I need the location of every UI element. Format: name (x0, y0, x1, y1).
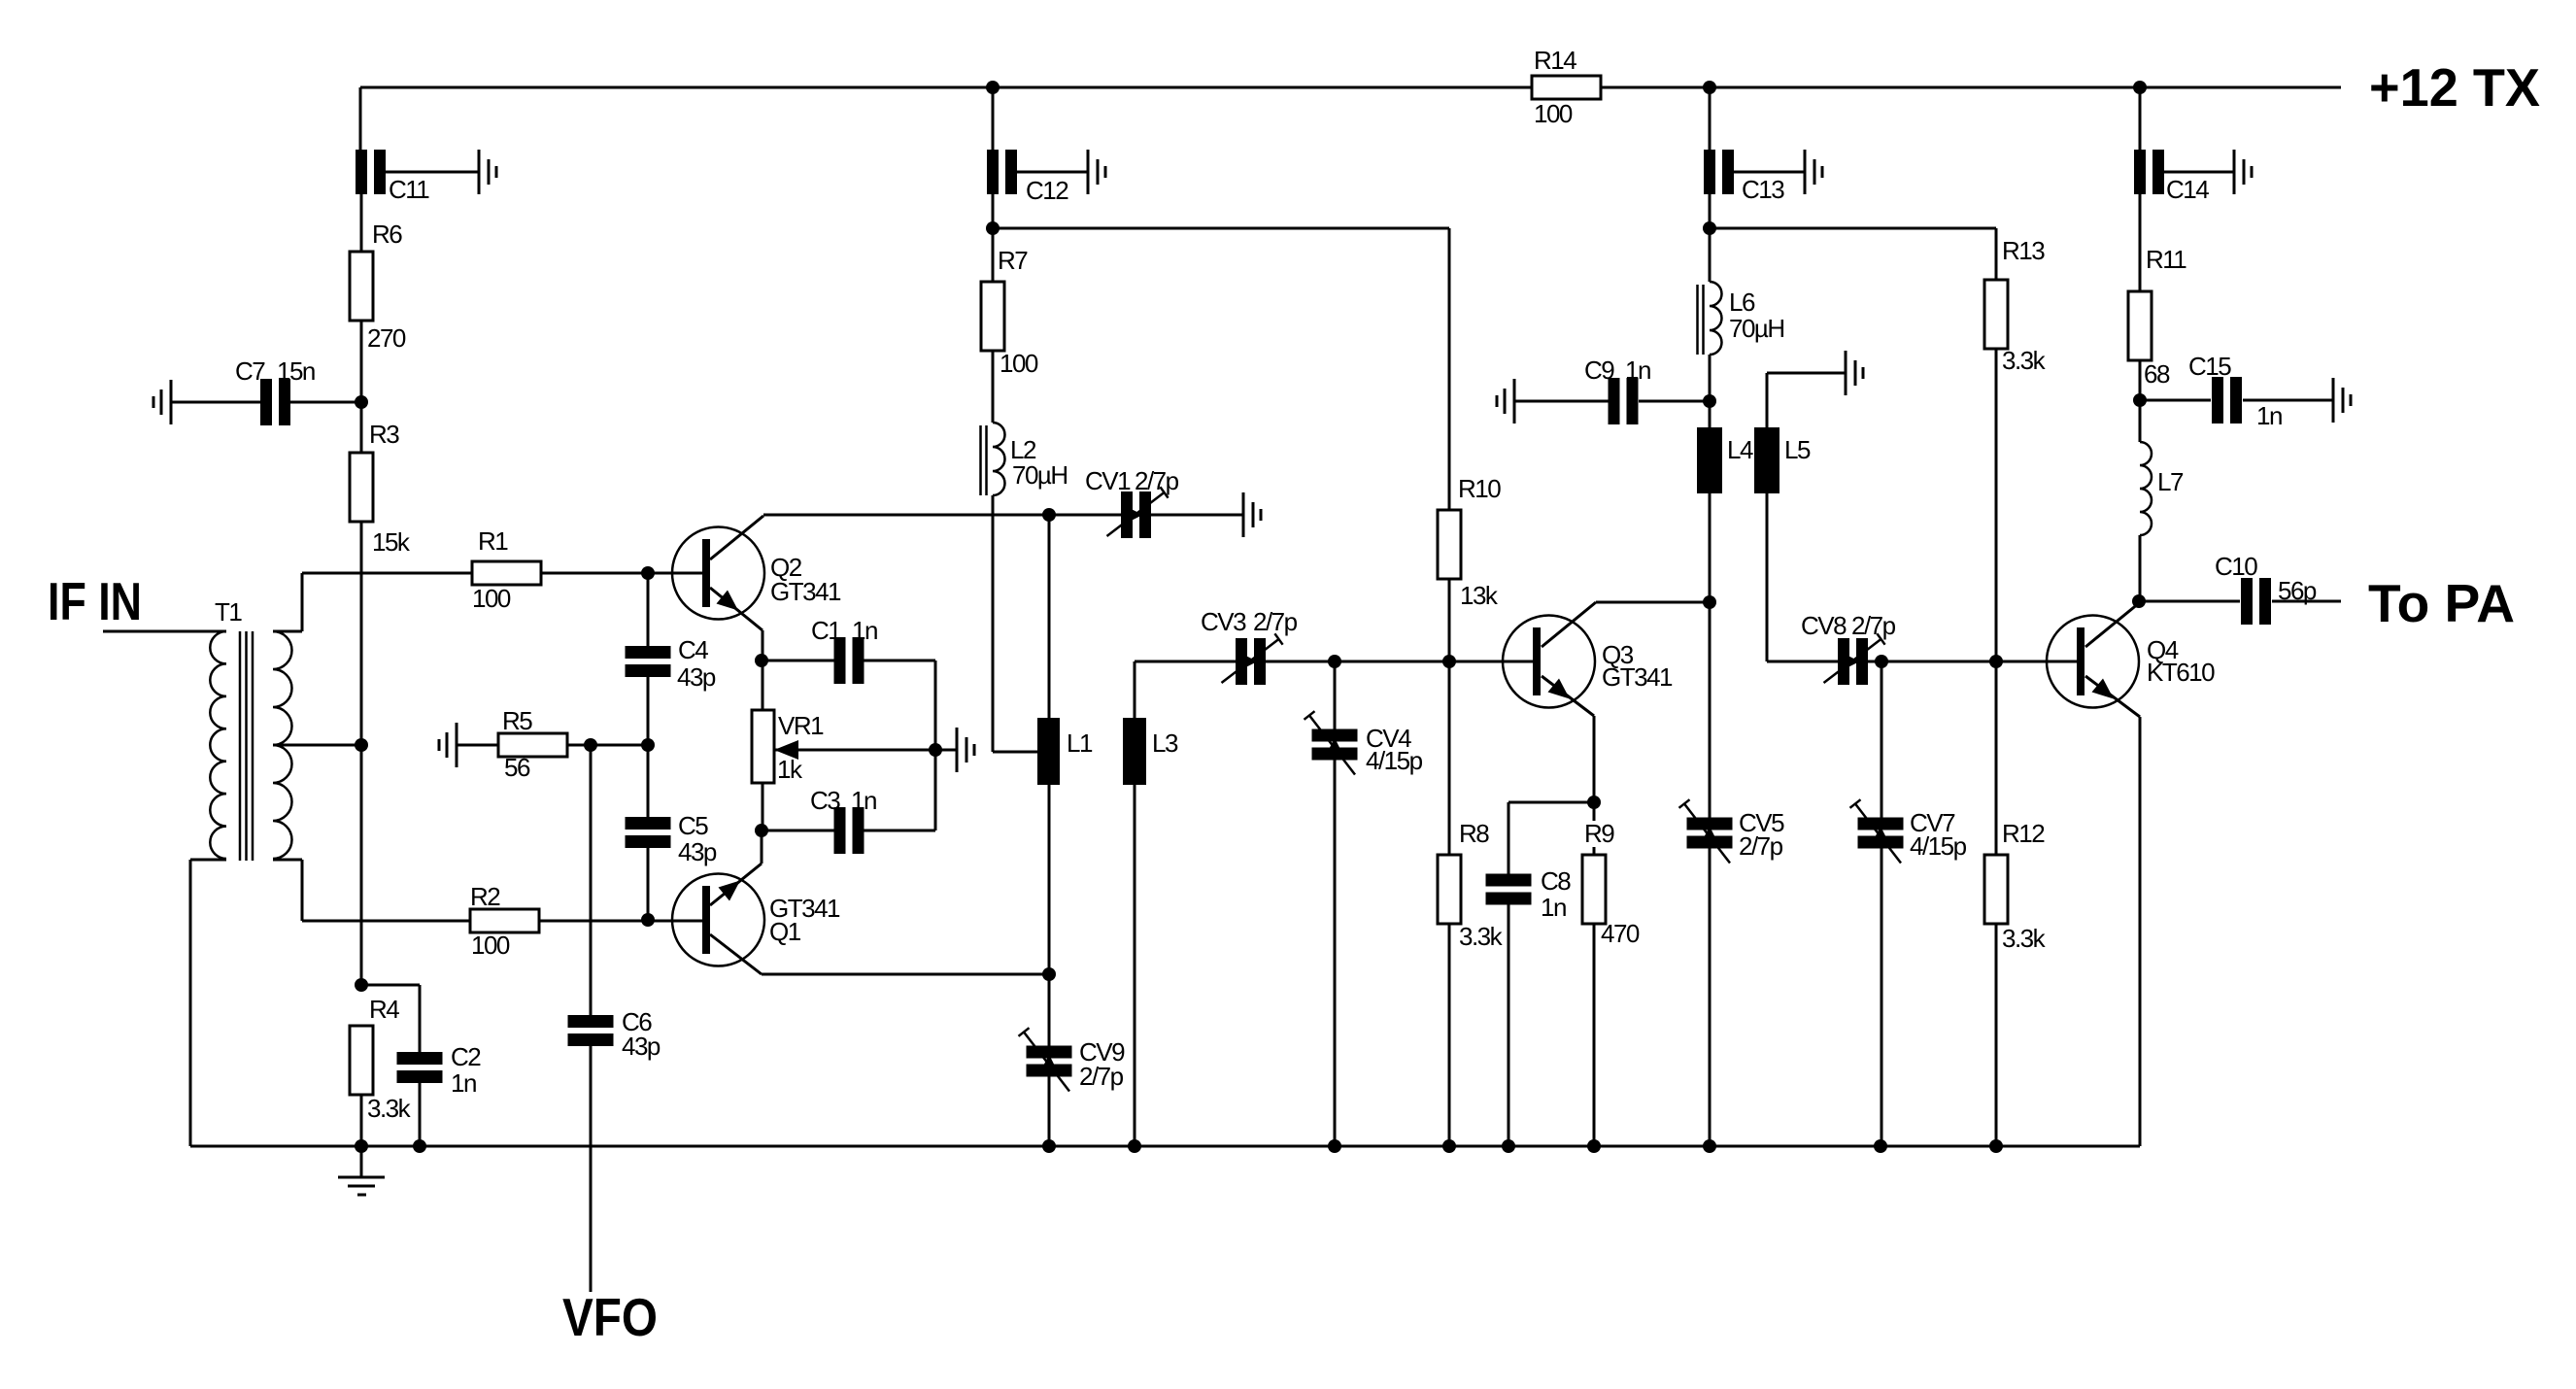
arrow Q1 emitter (719, 881, 741, 901)
node Q3 collector junction (1703, 595, 1716, 609)
svg-text:GT341: GT341 (770, 577, 841, 606)
ground (C9) (1497, 379, 1514, 423)
node C12/R10 junction (986, 221, 1000, 235)
svg-text:3.3k: 3.3k (2002, 924, 2047, 953)
svg-text:C13: C13 (1742, 175, 1784, 204)
resistor R10 (1438, 474, 1501, 610)
wire Q4 emitter to rail (2085, 676, 2140, 717)
svg-text:C11: C11 (389, 175, 429, 204)
svg-text:Q1: Q1 (769, 917, 801, 946)
node Q3 emitter/C8/R9 junction (1587, 796, 1601, 809)
wire Q3 emitter diagonal (1542, 676, 1594, 716)
inductor L2 (981, 423, 1068, 495)
wire L1 top (1048, 515, 1051, 718)
wire +12 TX top rail (360, 86, 1532, 89)
capacitor C1 (811, 616, 877, 684)
node CV4 junction (1328, 655, 1341, 668)
capacitor C15 (2188, 352, 2282, 430)
svg-text:100: 100 (471, 931, 510, 960)
svg-text:C10: C10 (2215, 552, 2257, 581)
resistor R2 (470, 882, 539, 960)
node VR1 bottom/C3/Q1 emitter junction (755, 824, 768, 837)
svg-text:4/15p: 4/15p (1366, 746, 1423, 775)
svg-text:43p: 43p (622, 1032, 661, 1061)
wire R4 to bottom rail (360, 1095, 363, 1146)
node C13/R13 junction (1703, 221, 1716, 235)
svg-text:13k: 13k (1460, 581, 1499, 610)
svg-text:C15: C15 (2188, 352, 2231, 381)
svg-text:1n: 1n (451, 1068, 476, 1098)
svg-text:R3: R3 (369, 420, 399, 449)
wire C13 to ground (1734, 171, 1805, 174)
arrow VR1 wiper (774, 740, 798, 760)
wire C4/C5 column (647, 573, 650, 646)
node C15/L7 junction (2133, 393, 2147, 407)
svg-text:+12 TX: +12 TX (2369, 57, 2540, 118)
wire VR1 wiper (774, 749, 935, 752)
wire L6 column (1709, 228, 1712, 282)
svg-text:68: 68 (2144, 359, 2170, 389)
ground (L5) (1846, 351, 1863, 395)
svg-text:C7: C7 (235, 356, 265, 386)
wire R9 bottom (1593, 923, 1596, 1146)
wire R2 to Q1 base (539, 920, 702, 923)
wire CV7 column (1881, 661, 1883, 818)
transistor Q1 (672, 874, 840, 966)
wire Q2 collector diagonal and CV1 line (710, 516, 763, 559)
wire C13 column (1709, 87, 1712, 150)
capacitor C12 (987, 150, 1068, 205)
wire wiper to ground (935, 749, 957, 752)
wire R10 bottom / R8 column (1448, 578, 1451, 855)
wire ground bottom rail (189, 860, 192, 1146)
svg-text:C9: C9 (1584, 356, 1614, 385)
capacitor C10 (2215, 552, 2317, 625)
svg-text:3.3k: 3.3k (1459, 922, 1504, 951)
resistor R14 (1532, 46, 1601, 128)
wire L5 bottom to CV8 (1766, 493, 1769, 661)
svg-text:4/15p: 4/15p (1910, 831, 1967, 861)
variable capacitor CV3 (1201, 607, 1298, 685)
svg-text:VR1: VR1 (778, 711, 824, 740)
node CV7 junction (1875, 655, 1888, 668)
capacitor C4 (626, 635, 716, 692)
node top rail junction C13 (1703, 81, 1716, 94)
wire C10 to To PA (2272, 600, 2341, 603)
svg-text:15n: 15n (277, 356, 315, 386)
wire VFO line (590, 745, 593, 1015)
wire L5 top to ground (1766, 373, 1769, 427)
wire C14 column (2139, 87, 2142, 150)
svg-text:2/7p: 2/7p (1739, 831, 1783, 861)
wire C9 lead (1514, 400, 1609, 403)
svg-text:R5: R5 (502, 706, 532, 735)
svg-text:R10: R10 (1458, 474, 1501, 503)
resistor R6 (350, 220, 406, 353)
variable capacitor CV9 (1019, 1028, 1126, 1091)
svg-text:C5: C5 (678, 811, 708, 840)
wire R7/L2 column to L1 tap (992, 228, 995, 282)
wire VR1 bottom (762, 783, 764, 830)
svg-text:GT341: GT341 (1602, 662, 1673, 692)
wire L7 top (2139, 400, 2142, 442)
wire T1 tap (273, 744, 361, 747)
wire L4 top (1709, 401, 1712, 427)
svg-text:1k: 1k (777, 755, 803, 784)
wire L3 bottom (1134, 785, 1136, 1146)
svg-text:CV3: CV3 (1201, 607, 1246, 636)
wire R1 to Q2 base (541, 572, 702, 575)
svg-text:CV1: CV1 (1085, 466, 1131, 495)
node R13/R12 junction (1989, 655, 2003, 668)
wire Q3 collector diagonal (1542, 602, 1596, 647)
wire C8 branch (1508, 801, 1594, 804)
svg-text:R12: R12 (2002, 819, 2045, 848)
wire CV3 to Q3 base (1266, 661, 1534, 663)
svg-text:1n: 1n (1541, 893, 1566, 922)
capacitor C7 (235, 356, 315, 425)
inductor L6 (1698, 282, 1784, 355)
resistor R12 (1984, 819, 2047, 953)
wire C7 to node (290, 401, 361, 404)
svg-text:VFO: VFO (562, 1287, 658, 1347)
node L7/C10/Q4 collector junction (2132, 594, 2146, 608)
wire C14 to ground (2164, 171, 2234, 174)
wire Q1 emitter diagonal (761, 830, 763, 864)
resistor R4 (350, 995, 412, 1123)
wire bias line C12 to R10 (993, 227, 1449, 230)
svg-text:L5: L5 (1784, 435, 1811, 464)
node C4/C5 midpoint junction (641, 738, 655, 752)
variable capacitor CV8 (1801, 611, 1896, 685)
svg-text:C8: C8 (1541, 866, 1571, 896)
inductor L3 (1123, 718, 1178, 785)
svg-text:1n: 1n (851, 786, 876, 815)
node rail junctions (355, 1139, 368, 1153)
variable capacitor CV4 (1305, 711, 1423, 775)
ground (C13) (1805, 150, 1822, 194)
svg-text:R8: R8 (1459, 819, 1489, 848)
svg-text:70µH: 70µH (1012, 460, 1068, 490)
inductor L4 (1697, 427, 1753, 493)
svg-text:T1: T1 (215, 597, 242, 627)
wire L4 bottom to CV5 to rail (1709, 493, 1712, 818)
svg-text:1n: 1n (1625, 356, 1650, 385)
wire Q1 collector diagonal and L1 bottom line (710, 934, 762, 974)
variable capacitor CV1 (1085, 466, 1179, 538)
wire R13 bottom / R12 column (1995, 349, 1998, 855)
svg-text:56: 56 (504, 753, 530, 782)
wire L1 bottom to CV9 (1048, 785, 1051, 1046)
svg-text:L1: L1 (1067, 728, 1093, 758)
wire CV8 to Q4 base (1868, 661, 2078, 663)
wire IF IN lead (103, 630, 226, 633)
wire C12 column (992, 87, 995, 150)
wire C1 right to C3 right column (864, 660, 935, 662)
inductor L7 (2140, 442, 2184, 535)
wire C3 left lead (762, 830, 834, 832)
svg-text:L4: L4 (1727, 435, 1753, 464)
node wiper/ground junction (929, 743, 942, 757)
svg-text:2/7p: 2/7p (1135, 466, 1179, 495)
resistor R5 (498, 706, 567, 782)
resistor R8 (1438, 819, 1504, 951)
svg-text:100: 100 (1000, 349, 1038, 378)
resistor R9 (1580, 819, 1640, 948)
variable capacitor CV5 (1679, 799, 1785, 863)
svg-text:R2: R2 (470, 882, 500, 911)
wire CV4 column (1334, 661, 1337, 729)
svg-text:C14: C14 (2166, 175, 2209, 204)
ground (VR1 wiper) (957, 728, 974, 772)
capacitor C8 (1486, 866, 1572, 922)
svg-text:C12: C12 (1026, 176, 1068, 205)
node Q1 collector/L1/CV9 junction (1042, 967, 1056, 981)
svg-text:IF IN: IF IN (48, 571, 142, 631)
node R4/C2 junction (355, 978, 368, 992)
svg-text:43p: 43p (678, 837, 717, 866)
ground (C14) (2234, 150, 2252, 194)
svg-text:R4: R4 (369, 995, 399, 1024)
ground (C7) (153, 380, 171, 424)
svg-text:3.3k: 3.3k (2002, 346, 2047, 375)
svg-text:R11: R11 (2146, 245, 2186, 274)
node top rail junction C14 (2133, 81, 2147, 94)
wire C15 lead left (2140, 399, 2211, 402)
svg-text:C2: C2 (451, 1042, 481, 1071)
svg-text:L3: L3 (1152, 728, 1178, 758)
svg-text:C4: C4 (678, 635, 708, 664)
node R10/R8 junction (1442, 655, 1456, 668)
potentiometer VR1 (752, 710, 824, 784)
wire C7 to ground (171, 401, 260, 404)
svg-text:100: 100 (1534, 99, 1573, 128)
inductor L5 (1754, 427, 1811, 493)
ground (C15) (2333, 378, 2351, 423)
wire C2 branch (361, 984, 420, 987)
wire R5 to ground (457, 744, 498, 747)
svg-text:L7: L7 (2157, 467, 2184, 496)
svg-text:R14: R14 (1534, 46, 1576, 75)
node Q2 emitter/C1/VR1 junction (755, 654, 768, 667)
svg-text:2/7p: 2/7p (1851, 611, 1896, 640)
resistor R13 (1984, 236, 2047, 375)
ground (R5) (439, 723, 457, 767)
node CV1/L1 top junction (1042, 508, 1056, 522)
node Q1 base junction (641, 913, 655, 927)
wire CV1 to ground (1151, 514, 1243, 517)
svg-text:R1: R1 (478, 526, 508, 556)
node C7 junction (355, 395, 368, 409)
resistor R7 (981, 246, 1038, 378)
svg-text:R6: R6 (372, 220, 402, 249)
capacitor C11 (356, 150, 429, 204)
wire Q4 collector diagonal (2085, 603, 2139, 647)
ground (CV1) (1243, 492, 1261, 537)
wire C10 lead (2139, 600, 2240, 603)
wire C12 to ground (1017, 171, 1088, 174)
svg-text:C1: C1 (811, 616, 841, 645)
node VFO line top junction (584, 738, 597, 752)
svg-text:2/7p: 2/7p (1253, 607, 1298, 636)
svg-text:R13: R13 (2002, 236, 2045, 265)
arrow Q3 emitter (1548, 679, 1571, 699)
wire T1 secondary bottom to R2 (273, 859, 302, 862)
capacitor C14 (2134, 150, 2209, 204)
node Q2 base junction (641, 566, 655, 580)
node C9/L6/L4 junction (1703, 394, 1716, 408)
capacitor C9 (1584, 356, 1650, 424)
svg-text:L6: L6 (1729, 288, 1755, 317)
svg-text:CV8: CV8 (1801, 611, 1847, 640)
svg-text:56p: 56p (2278, 576, 2317, 605)
wire bias line C13 to R13 (1710, 227, 1996, 230)
svg-text:43p: 43p (677, 662, 716, 692)
svg-text:100: 100 (472, 584, 511, 613)
ground (C12) (1088, 150, 1105, 194)
capacitor C3 (810, 786, 876, 854)
wire C9 to junction (1639, 400, 1710, 403)
wire R5 to C4/C5 node (567, 744, 648, 747)
svg-text:15k: 15k (372, 527, 411, 557)
capacitor C5 (626, 811, 717, 866)
wire C11 to ground (386, 171, 479, 174)
variable capacitor CV7 (1850, 799, 1967, 863)
arrow Q2 emitter (717, 591, 739, 611)
transistor Q3 (1503, 616, 1673, 708)
wire L3 top to CV3 (1134, 661, 1136, 718)
capacitor C6 (568, 1007, 661, 1061)
svg-text:1n: 1n (2256, 401, 2282, 430)
svg-text:To PA: To PA (2368, 573, 2515, 633)
svg-text:2/7p: 2/7p (1079, 1062, 1124, 1091)
wire C3 right lead (864, 830, 935, 832)
wire T1 primary bottom to rail (190, 859, 226, 862)
wire T1 secondary top to R1 (273, 630, 302, 633)
wire C11 to R6 to C7 node to R3 to T1 tap to R4 node (360, 194, 363, 252)
ground (bottom rail) (338, 1146, 385, 1195)
wire L7 bottom (2139, 535, 2142, 601)
transistor Q2 (672, 527, 841, 620)
svg-text:R7: R7 (998, 246, 1028, 275)
resistor R1 (472, 526, 541, 613)
svg-text:3.3k: 3.3k (367, 1094, 412, 1123)
ground (C11) (479, 150, 496, 194)
arrow Q4 emitter (2092, 679, 2115, 699)
svg-text:R9: R9 (1584, 819, 1614, 848)
svg-text:270: 270 (367, 323, 406, 353)
svg-text:70µH: 70µH (1729, 314, 1784, 343)
wire Q2 emitter diagonal (710, 588, 763, 630)
svg-text:1n: 1n (852, 616, 877, 645)
svg-text:KT610: KT610 (2147, 658, 2215, 687)
capacitor C13 (1704, 150, 1784, 204)
node top rail junction C12 (986, 81, 1000, 94)
resistor R3 (350, 420, 411, 557)
svg-text:470: 470 (1601, 919, 1640, 948)
wire R11 bottom to C15 node (2139, 360, 2142, 400)
wire C15 to ground (2243, 399, 2333, 402)
resistor R11 (2128, 245, 2186, 389)
node T1 center tap junction (355, 738, 368, 752)
transistor Q4 (2047, 616, 2215, 708)
inductor L1 (1037, 718, 1093, 785)
wire VR1 top (762, 661, 764, 710)
svg-text:C3: C3 (810, 786, 840, 815)
transformer T1 (210, 597, 291, 861)
capacitor C2 (397, 1042, 482, 1098)
wire C1 left lead (762, 660, 834, 662)
